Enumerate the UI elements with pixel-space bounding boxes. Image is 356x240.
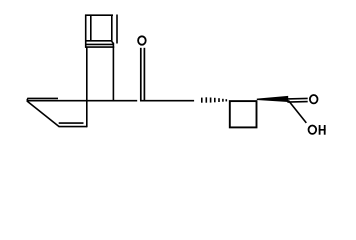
wire top ring bottom outer edge [85, 46, 114, 48]
wire ketone C=O double bond line 1 [140, 48, 142, 101]
wire C-OH bond [288, 100, 306, 123]
wire backbone main chain bond [27, 100, 137, 102]
wire left ring bottom outer bond [59, 126, 88, 128]
wire long right vertical bond [112, 43, 114, 101]
wire top ring inner left double bond line [90, 15, 92, 40]
wire solid wedge stereo bond [257, 96, 288, 102]
wire top ring top edge [85, 14, 113, 16]
wire hashed wedge stereo bond [202, 97, 227, 102]
node ketone oxygen label O [138, 36, 146, 44]
node hydroxyl label H of OH [319, 125, 326, 135]
wire top ring left edge [85, 15, 87, 48]
wire top ring bottom inner edge [85, 40, 112, 42]
wire junction arrow tick [111, 41, 113, 44]
wire top ring outer right double bond line [116, 15, 118, 44]
wire long left vertical bond [86, 47, 88, 127]
wire top ring bottom middle edge [85, 43, 114, 45]
wire cyclobutane ring [230, 101, 257, 127]
wire acid C=O double bond line 1 [287, 97, 307, 100]
wire left ring diagonal bond [27, 101, 59, 127]
wire left ring bottom inner double bond line [59, 122, 84, 124]
wire backbone right of ketone [140, 100, 194, 102]
wire top ring inner right line [111, 15, 113, 40]
node acid carbonyl oxygen label O [310, 95, 318, 103]
wire acid C=O double bond line 2 [287, 101, 307, 104]
node A left ring vertex double bond upper line [27, 98, 58, 100]
node hydroxyl label O of OH [309, 126, 317, 134]
wire ketone C=O double bond line 2 [143, 48, 145, 101]
